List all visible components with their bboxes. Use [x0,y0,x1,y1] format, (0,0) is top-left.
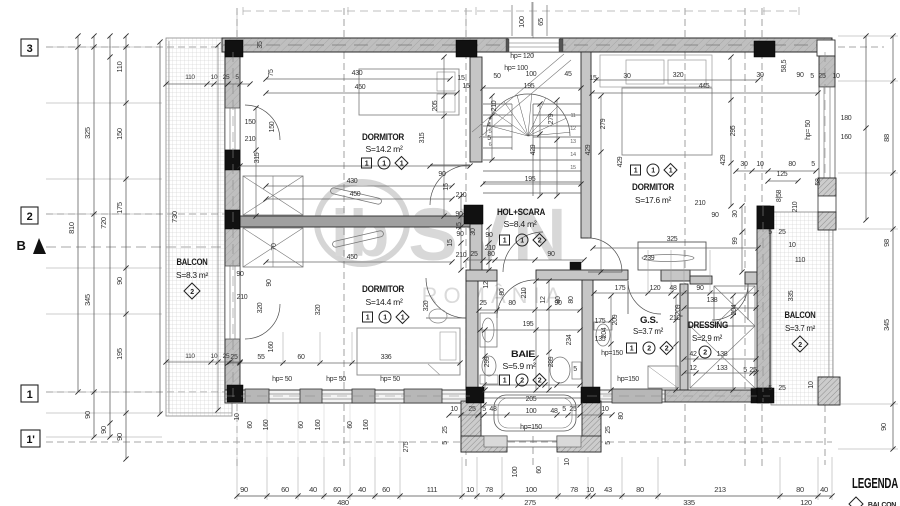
svg-text:160: 160 [315,419,322,430]
svg-text:110: 110 [185,74,195,81]
svg-text:320: 320 [673,72,684,79]
left dim chain 3 [109,36,111,437]
svg-text:138: 138 [707,297,718,304]
svg-text:12: 12 [689,365,697,372]
extension lines left chain [46,46,162,48]
interior dim rows gs dressing [594,292,756,294]
column [464,205,483,224]
wall centerlines dashed [232,52,234,397]
svg-text:5: 5 [605,441,612,445]
svg-text:120: 120 [650,285,661,292]
svg-text:2: 2 [538,238,542,245]
svg-text:2: 2 [647,346,651,353]
svg-text:hp=150: hp=150 [601,350,623,357]
svg-text:80: 80 [796,485,804,494]
bathtub in porch niche [494,395,576,431]
svg-text:10: 10 [466,485,474,494]
column [225,40,243,57]
svg-text:80: 80 [499,288,506,296]
svg-text:15: 15 [456,222,463,230]
svg-text:80: 80 [568,296,575,304]
svg-text:429: 429 [585,144,592,155]
svg-text:25: 25 [468,406,476,413]
baie toilet [482,356,496,376]
svg-text:hp=150: hp=150 [520,424,542,431]
svg-text:10: 10 [234,413,241,421]
svg-text:S=14.2 m²: S=14.2 m² [366,144,403,154]
svg-text:25: 25 [442,426,449,434]
svg-text:450: 450 [355,84,366,91]
stair treads left flight [483,103,512,105]
svg-text:25: 25 [818,73,826,80]
bed right dormitor [600,55,712,87]
svg-text:345: 345 [882,319,891,331]
svg-text:1: 1 [401,315,405,322]
svg-text:15: 15 [447,239,454,247]
dressing wardrobe X lower [690,326,755,388]
svg-text:204: 204 [601,327,608,338]
svg-text:78: 78 [485,485,493,494]
svg-text:10: 10 [586,485,594,494]
svg-text:25: 25 [605,426,612,434]
svg-text:175: 175 [615,285,626,292]
svg-text:hp= 120: hp= 120 [510,53,534,60]
closet right dormitor [638,242,706,270]
svg-text:1: 1 [669,168,673,175]
svg-text:12: 12 [540,296,547,304]
top exterior wall [222,38,832,52]
svg-text:75: 75 [268,69,275,77]
svg-text:S=3.7 m²: S=3.7 m² [785,324,816,333]
axis bubble 1 [21,385,38,402]
svg-text:8|58: 8|58 [776,189,783,202]
door baie [497,280,535,318]
svg-text:hp= 50: hp= 50 [326,376,346,383]
hall and dormitor bottom wall [466,270,497,281]
svg-text:5: 5 [768,385,772,392]
svg-text:98: 98 [882,239,891,247]
svg-text:195: 195 [525,176,536,183]
svg-text:4: 4 [487,122,491,129]
top right white pilaster [817,40,835,56]
svg-text:5: 5 [487,135,491,142]
svg-text:80: 80 [618,412,625,420]
svg-text:5: 5 [743,367,747,374]
svg-text:70: 70 [271,243,278,251]
interior dim cols left dormitor [255,108,257,216]
interior dim rows baie [479,309,580,311]
interior dim rows mid dormitor [266,185,452,187]
svg-text:S=8.4 m²: S=8.4 m² [504,219,537,229]
svg-text:hp= 50: hp= 50 [272,376,292,383]
svg-text:429: 429 [617,156,624,167]
svg-text:239: 239 [644,255,655,262]
svg-text:234: 234 [566,334,573,345]
porch bottom right wall [557,436,601,452]
svg-text:160: 160 [841,134,852,141]
right dim chain 1 [865,36,867,220]
svg-text:320: 320 [257,302,264,313]
svg-text:430: 430 [352,70,363,77]
svg-text:30: 30 [756,72,764,79]
svg-text:445: 445 [699,83,710,90]
svg-text:195: 195 [524,83,535,90]
dressing top wall stub [745,272,757,284]
svg-text:1: 1 [651,168,655,175]
svg-text:S=5.9 m²: S=5.9 m² [503,361,536,371]
svg-text:25: 25 [470,251,478,258]
svg-text:90: 90 [547,251,555,258]
svg-text:195: 195 [523,321,534,328]
witness lines gs dressing row [647,250,649,293]
svg-text:hp= 50: hp= 50 [805,120,812,140]
dormitor2 chair oval [429,309,447,323]
svg-text:25: 25 [778,229,786,236]
svg-text:B: B [16,238,25,253]
svg-text:180: 180 [841,115,852,122]
svg-text:100: 100 [526,408,537,415]
svg-text:15: 15 [457,75,465,82]
dressing balcony wall [757,206,770,402]
svg-text:60: 60 [298,421,305,429]
top dims 100 65 [511,5,513,36]
svg-text:DRESSING: DRESSING [688,320,728,331]
svg-text:90: 90 [879,423,888,431]
hall left wall upper [470,57,482,162]
svg-text:279: 279 [548,113,555,124]
svg-text:S=2.9 m²: S=2.9 m² [692,333,722,343]
svg-text:BALCON: BALCON [177,257,208,267]
svg-text:30: 30 [470,228,477,236]
svg-text:320: 320 [423,300,430,311]
svg-text:100: 100 [526,71,537,78]
column [227,385,243,402]
baie toilet right [550,357,570,383]
column [581,387,600,403]
watermark logo circle [317,182,570,308]
svg-text:5: 5 [768,229,772,236]
svg-text:125: 125 [777,171,788,178]
svg-text:60: 60 [281,485,289,494]
svg-text:30: 30 [740,161,748,168]
svg-text:810: 810 [67,222,76,234]
svg-text:HOL+SCARA: HOL+SCARA [497,207,545,218]
interior dim row right dormitor 30 10 80 5 [736,170,816,172]
svg-text:209: 209 [675,304,682,315]
bed bottom left dormitor [357,328,460,375]
svg-text:1: 1 [382,161,386,168]
svg-text:335: 335 [683,498,695,506]
svg-text:2: 2 [27,211,33,223]
svg-text:58: 58 [815,178,822,186]
svg-text:10: 10 [211,74,218,81]
svg-text:50: 50 [493,73,501,80]
svg-text:90: 90 [796,72,804,79]
svg-text:5: 5 [442,441,449,445]
balcony dim 730 [159,42,161,414]
extension line top [236,12,238,38]
baie gs wall [582,274,593,390]
svg-text:65: 65 [536,18,545,26]
svg-text:90: 90 [236,271,244,278]
interior dim col balcony [217,45,219,410]
svg-text:35: 35 [257,41,264,49]
svg-text:90: 90 [115,433,124,441]
svg-text:210: 210 [456,192,467,199]
bottom wall left section [225,390,470,403]
bottom wall right section solid [665,390,770,402]
right exterior wall upper [819,56,835,87]
gs shower [648,366,678,388]
svg-text:325: 325 [83,127,92,139]
svg-text:295: 295 [730,125,737,136]
baie sink [480,313,497,347]
svg-text:60: 60 [347,421,354,429]
svg-text:90: 90 [438,171,446,178]
svg-text:15: 15 [589,75,597,82]
svg-text:40: 40 [309,485,317,494]
svg-text:10: 10 [564,458,571,466]
svg-text:25: 25 [778,385,786,392]
svg-text:1: 1 [27,389,33,401]
svg-text:2: 2 [538,378,542,385]
svg-text:11: 11 [570,113,575,119]
svg-text:150: 150 [269,121,276,132]
svg-text:10: 10 [211,353,218,360]
svg-text:430: 430 [347,178,358,185]
svg-text:90: 90 [115,277,124,285]
interior dim row door top dormitor [240,165,470,167]
svg-text:110: 110 [115,61,124,72]
left balcony hatch [166,38,232,416]
svg-text:S=14.4 m²: S=14.4 m² [366,297,403,307]
svg-text:BALCON: BALCON [868,502,896,506]
right wall window [819,87,835,178]
svg-text:48: 48 [669,285,677,292]
svg-text:15: 15 [462,83,470,90]
svg-text:315: 315 [419,132,426,143]
column [751,388,769,403]
svg-text:138: 138 [717,351,728,358]
right wall corner pier [818,178,836,196]
extension lines right chain [838,35,898,37]
svg-text:210: 210 [521,287,528,298]
door hall entry arc [503,232,543,272]
interior dim row closet 325 [593,247,758,249]
svg-text:100: 100 [525,485,537,494]
svg-text:hp=150: hp=150 [617,376,639,383]
svg-text:ib: ib [331,196,389,270]
svg-text:60: 60 [536,466,543,474]
svg-text:315: 315 [254,152,261,163]
svg-text:299: 299 [484,356,491,367]
svg-text:160: 160 [268,341,275,352]
svg-text:DORMITOR: DORMITOR [362,284,404,295]
svg-text:325: 325 [667,236,678,243]
svg-text:5: 5 [811,161,815,168]
svg-text:40: 40 [358,485,366,494]
svg-text:100: 100 [512,466,519,477]
svg-text:175: 175 [115,202,124,214]
left wall window door arcs into rooms [245,105,280,140]
svg-text:110: 110 [795,257,806,264]
svg-text:210: 210 [792,201,799,212]
bed top left dormitor [359,69,459,115]
svg-text:5: 5 [562,406,566,413]
gs dressing wall [680,284,688,390]
stair winder fan arch [486,94,570,136]
svg-text:336: 336 [381,354,392,361]
svg-text:5: 5 [482,406,486,413]
balcony axis drop dashed [824,405,826,465]
svg-text:213: 213 [714,485,726,494]
svg-text:1: 1 [630,346,634,353]
svg-text:210: 210 [456,252,467,259]
svg-text:1: 1 [503,238,507,245]
svg-text:150: 150 [115,128,124,140]
svg-text:335: 335 [788,290,795,301]
svg-text:133: 133 [717,365,728,372]
interior dim row right dormitor 320 445 [596,79,758,81]
baie left wall [466,278,478,390]
interior dim cols right dormitor [600,96,602,272]
svg-text:429: 429 [720,154,727,165]
interior dim row bottom dormitor 336 [228,362,460,364]
svg-text:DORMITOR: DORMITOR [362,132,404,143]
svg-text:2: 2 [520,378,524,385]
right dim chain 2 [892,36,894,449]
svg-text:12: 12 [483,281,490,289]
svg-text:DORMITOR: DORMITOR [632,182,674,193]
svg-text:58,5: 58,5 [781,59,788,72]
stair treads lower flight [483,159,581,161]
svg-text:5: 5 [573,366,577,373]
svg-text:100: 100 [517,16,526,28]
svg-text:1: 1 [634,168,638,175]
svg-text:210: 210 [485,245,496,252]
dressing wardrobe X upper [714,286,755,326]
svg-text:15: 15 [570,165,576,171]
svg-text:2: 2 [665,346,669,353]
svg-text:S=17.6 m²: S=17.6 m² [635,195,671,205]
svg-text:LEGENDA: LEGENDA [852,476,899,492]
svg-text:210: 210 [695,200,706,207]
svg-text:10: 10 [808,381,815,389]
svg-text:1: 1 [383,315,387,322]
svg-text:hp= 100: hp= 100 [504,65,528,72]
svg-text:110: 110 [185,353,195,360]
svg-text:45: 45 [564,71,572,78]
middle wall between left bedrooms [240,216,477,227]
interior dim row top dormitor 430 450 [266,78,450,80]
hall right wall [581,52,591,238]
witness lines dormitor2 336 row [282,332,284,363]
bottom wall gs window [599,390,665,402]
wardrobe X top dormitor [243,176,303,215]
svg-text:88: 88 [882,134,891,142]
svg-text:60: 60 [297,354,305,361]
svg-text:80: 80 [788,161,796,168]
svg-text:195: 195 [115,348,124,360]
interior dim cols baie gs [484,330,486,390]
svg-text:15: 15 [443,183,450,191]
svg-text:90: 90 [266,279,273,287]
door gs [628,281,661,314]
svg-text:10: 10 [788,242,796,249]
baie niche opening lines [484,391,581,393]
svg-text:99: 99 [732,237,739,245]
axis bubble 3 [21,39,38,56]
svg-text:90: 90 [711,212,719,219]
door dressing [712,284,748,320]
left dim chain 4 [125,36,127,459]
bottom wall window sills [245,389,269,403]
door dormitor2 from hall [426,317,466,319]
svg-text:1: 1 [365,161,369,168]
svg-text:2: 2 [798,342,802,349]
svg-text:25: 25 [223,353,230,360]
svg-text:2: 2 [190,289,194,296]
svg-text:111: 111 [427,485,438,494]
svg-text:429: 429 [530,144,537,155]
svg-text:3: 3 [27,43,33,55]
hall left wall lower [470,224,482,278]
svg-text:275: 275 [524,498,536,506]
svg-text:30: 30 [732,210,739,218]
svg-text:90: 90 [240,485,248,494]
right balcony hatch [771,212,833,405]
svg-text:S=3.7 m²: S=3.7 m² [633,326,663,336]
svg-text:205: 205 [526,396,537,403]
svg-text:25: 25 [230,354,238,361]
gs toilet [596,324,610,346]
stair treads right flight [533,103,581,105]
svg-text:6: 6 [489,142,492,148]
svg-text:BALCON: BALCON [785,310,816,320]
column [757,206,774,229]
left dim chain 2 [93,36,95,437]
svg-text:175: 175 [595,318,606,325]
svg-text:1: 1 [520,238,524,245]
svg-text:80: 80 [508,300,516,307]
svg-text:480: 480 [337,498,349,506]
svg-text:345: 345 [83,294,92,306]
svg-text:450: 450 [350,191,361,198]
svg-text:1: 1 [366,315,370,322]
svg-text:120: 120 [800,498,812,506]
left wall window upper [225,108,240,150]
svg-text:90: 90 [696,285,704,292]
interior dim rows porch [484,404,580,406]
svg-text:25: 25 [223,74,230,81]
column [466,387,484,403]
svg-text:42: 42 [689,351,697,358]
wardrobe X bottom dormitor [243,228,303,267]
svg-text:80: 80 [555,296,562,304]
extension lines bottom chain [236,457,238,500]
stair break line [472,54,564,132]
radiator lower [332,230,384,248]
svg-text:209: 209 [612,314,619,325]
svg-text:14: 14 [570,152,576,158]
dim cols near mid junction [460,196,462,270]
svg-text:210: 210 [491,100,498,111]
svg-text:48: 48 [550,408,558,415]
svg-text:13: 13 [570,139,576,145]
porch right wall [582,401,601,452]
svg-text:1: 1 [400,161,404,168]
svg-text:720: 720 [99,217,108,229]
